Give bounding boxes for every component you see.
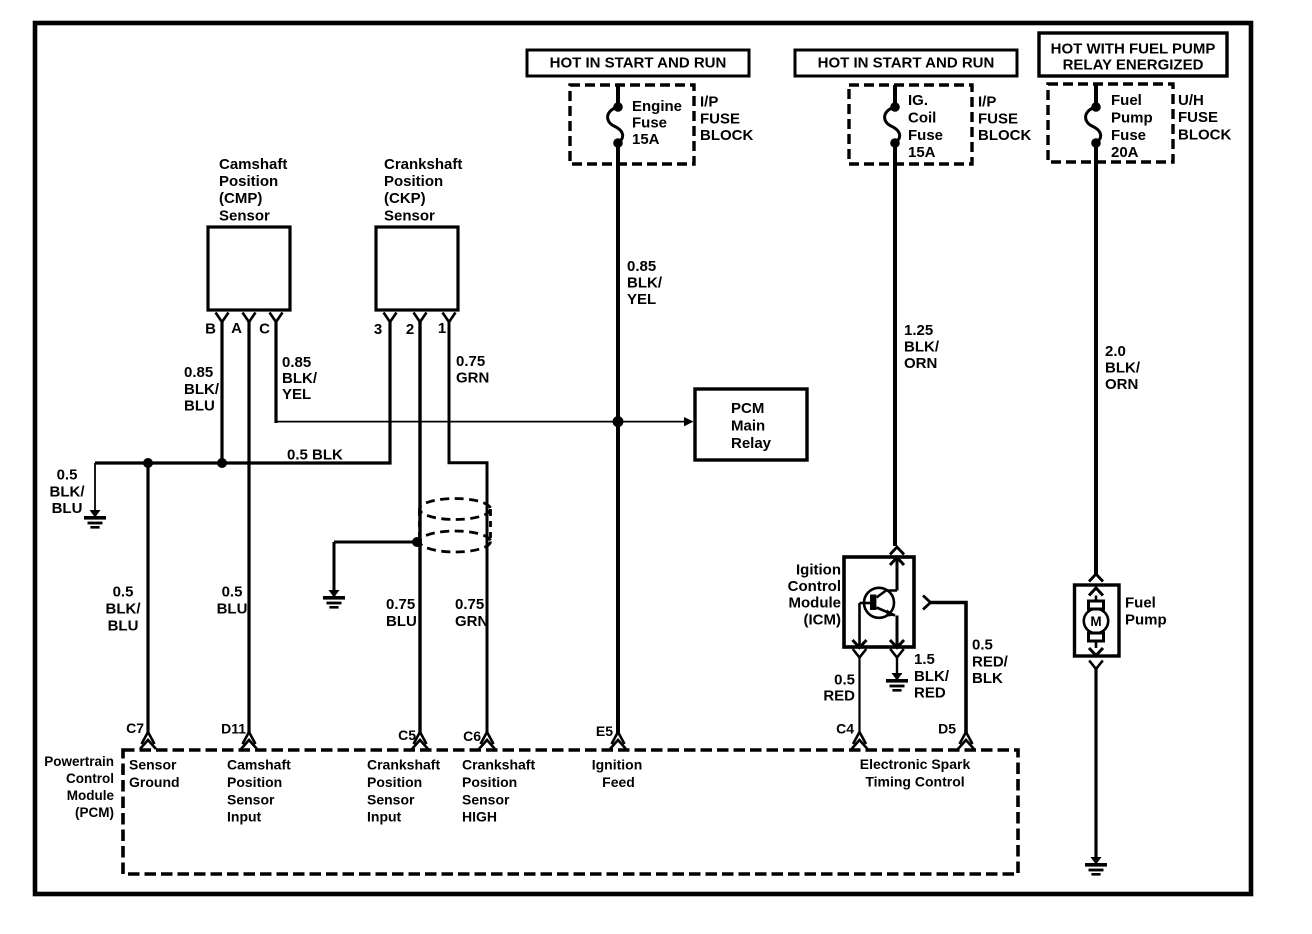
svg-text:(CMP): (CMP) <box>219 190 262 207</box>
svg-text:20A: 20A <box>1111 144 1139 161</box>
svg-text:HOT IN START AND RUN: HOT IN START AND RUN <box>550 55 727 72</box>
svg-text:C4: C4 <box>836 721 854 737</box>
svg-text:GRN: GRN <box>456 370 489 387</box>
svg-text:BLOCK: BLOCK <box>700 127 753 144</box>
svg-text:Module: Module <box>789 595 842 612</box>
svg-text:15A: 15A <box>908 144 936 161</box>
svg-text:Camshaft: Camshaft <box>227 757 291 773</box>
svg-text:BLU: BLU <box>217 601 248 618</box>
svg-text:C5: C5 <box>398 727 416 743</box>
svg-text:D11: D11 <box>221 721 246 737</box>
svg-text:BLK/: BLK/ <box>904 339 940 356</box>
svg-text:Control: Control <box>788 578 841 595</box>
svg-text:HOT IN START AND RUN: HOT IN START AND RUN <box>818 55 995 72</box>
svg-text:A: A <box>231 320 242 337</box>
svg-text:BLK: BLK <box>972 670 1003 687</box>
svg-text:Fuse: Fuse <box>632 115 667 132</box>
svg-text:0.5: 0.5 <box>113 584 134 601</box>
svg-text:15A: 15A <box>632 131 660 148</box>
svg-text:Pump: Pump <box>1111 109 1153 126</box>
svg-text:Fuse: Fuse <box>1111 127 1146 144</box>
svg-text:1.5: 1.5 <box>914 651 935 668</box>
svg-text:Camshaft: Camshaft <box>219 156 287 173</box>
svg-text:D5: D5 <box>938 721 956 737</box>
svg-text:FUSE: FUSE <box>978 110 1018 127</box>
svg-text:Sensor: Sensor <box>129 757 177 773</box>
svg-text:1.25: 1.25 <box>904 322 933 339</box>
svg-text:B: B <box>205 321 216 338</box>
svg-text:U/H: U/H <box>1178 92 1204 109</box>
svg-text:YEL: YEL <box>627 291 656 308</box>
svg-text:Sensor: Sensor <box>219 207 270 224</box>
svg-text:Fuel: Fuel <box>1111 92 1142 109</box>
svg-text:HIGH: HIGH <box>462 809 497 825</box>
svg-text:RED/: RED/ <box>972 653 1009 670</box>
svg-text:GRN: GRN <box>455 613 488 630</box>
svg-text:Timing Control: Timing Control <box>865 774 964 790</box>
svg-text:Powertrain: Powertrain <box>44 754 114 769</box>
svg-text:2.0: 2.0 <box>1105 343 1126 360</box>
svg-text:C6: C6 <box>463 728 481 744</box>
svg-text:M: M <box>1090 614 1101 629</box>
svg-text:ORN: ORN <box>1105 376 1138 393</box>
svg-text:BLU: BLU <box>52 500 83 517</box>
svg-text:BLK/: BLK/ <box>106 601 142 618</box>
svg-text:0.85: 0.85 <box>184 364 213 381</box>
svg-text:1: 1 <box>438 320 446 337</box>
svg-text:RELAY ENERGIZED: RELAY ENERGIZED <box>1063 57 1204 74</box>
svg-text:Position: Position <box>227 774 282 790</box>
svg-text:Feed: Feed <box>602 774 635 790</box>
svg-text:C7: C7 <box>126 720 144 736</box>
svg-text:(ICM): (ICM) <box>804 611 842 628</box>
svg-text:Ground: Ground <box>129 774 180 790</box>
svg-text:Engine: Engine <box>632 98 682 115</box>
svg-text:FUSE: FUSE <box>1178 109 1218 126</box>
svg-text:BLOCK: BLOCK <box>978 127 1031 144</box>
svg-text:Input: Input <box>367 809 402 825</box>
svg-text:Pump: Pump <box>1125 612 1167 629</box>
svg-text:Module: Module <box>67 788 115 803</box>
svg-text:BLK/: BLK/ <box>282 370 318 387</box>
svg-text:BLOCK: BLOCK <box>1178 126 1231 143</box>
svg-text:0.5: 0.5 <box>972 637 993 654</box>
svg-text:RED: RED <box>823 687 855 704</box>
svg-text:Main: Main <box>731 417 765 434</box>
svg-text:Control: Control <box>66 771 114 786</box>
svg-text:RED: RED <box>914 685 946 702</box>
svg-text:0.75: 0.75 <box>456 353 485 370</box>
svg-text:BLU: BLU <box>184 398 215 415</box>
svg-text:Position: Position <box>384 173 443 190</box>
svg-text:Fuel: Fuel <box>1125 595 1156 612</box>
svg-text:HOT WITH FUEL PUMP: HOT WITH FUEL PUMP <box>1051 41 1216 58</box>
svg-text:BLK/: BLK/ <box>50 483 86 500</box>
svg-text:ORN: ORN <box>904 355 937 372</box>
svg-text:PCM: PCM <box>731 400 764 417</box>
svg-text:2: 2 <box>406 321 414 338</box>
svg-text:Position: Position <box>367 774 422 790</box>
svg-text:0.5: 0.5 <box>834 672 855 689</box>
svg-text:Input: Input <box>227 809 262 825</box>
svg-text:Crankshaft: Crankshaft <box>384 156 462 173</box>
svg-text:Position: Position <box>219 173 278 190</box>
svg-text:FUSE: FUSE <box>700 110 740 127</box>
svg-text:Ignition: Ignition <box>592 757 643 773</box>
svg-text:BLK/: BLK/ <box>914 668 950 685</box>
svg-text:YEL: YEL <box>282 386 311 403</box>
svg-text:Coil: Coil <box>908 109 936 126</box>
svg-text:BLU: BLU <box>108 618 139 635</box>
svg-text:C: C <box>259 321 270 338</box>
svg-text:Sensor: Sensor <box>367 791 415 807</box>
svg-text:(PCM): (PCM) <box>75 805 114 820</box>
svg-text:BLK/: BLK/ <box>184 381 220 398</box>
svg-text:0.5 BLK: 0.5 BLK <box>287 447 343 464</box>
svg-text:BLK/: BLK/ <box>1105 360 1141 377</box>
svg-text:Crankshaft: Crankshaft <box>462 757 535 773</box>
svg-text:Sensor: Sensor <box>227 791 275 807</box>
svg-text:0.85: 0.85 <box>627 258 656 275</box>
svg-text:0.75: 0.75 <box>386 596 415 613</box>
svg-text:I/P: I/P <box>978 94 996 111</box>
svg-text:Relay: Relay <box>731 435 772 452</box>
svg-text:E5: E5 <box>596 723 613 739</box>
svg-text:0.5: 0.5 <box>222 584 243 601</box>
svg-text:Sensor: Sensor <box>384 207 435 224</box>
svg-text:I/P: I/P <box>700 94 718 111</box>
svg-text:BLK/: BLK/ <box>627 275 663 292</box>
svg-text:(CKP): (CKP) <box>384 190 426 207</box>
svg-text:Crankshaft: Crankshaft <box>367 757 440 773</box>
svg-text:0.5: 0.5 <box>57 467 78 484</box>
svg-text:3: 3 <box>374 321 382 338</box>
svg-text:0.85: 0.85 <box>282 354 311 371</box>
svg-text:Position: Position <box>462 774 517 790</box>
svg-text:Electronic Spark: Electronic Spark <box>860 756 971 772</box>
svg-text:0.75: 0.75 <box>455 596 484 613</box>
svg-text:Fuse: Fuse <box>908 127 943 144</box>
svg-text:Igition: Igition <box>796 562 841 579</box>
svg-text:IG.: IG. <box>908 92 928 109</box>
svg-text:Sensor: Sensor <box>462 791 510 807</box>
svg-text:BLU: BLU <box>386 613 417 630</box>
